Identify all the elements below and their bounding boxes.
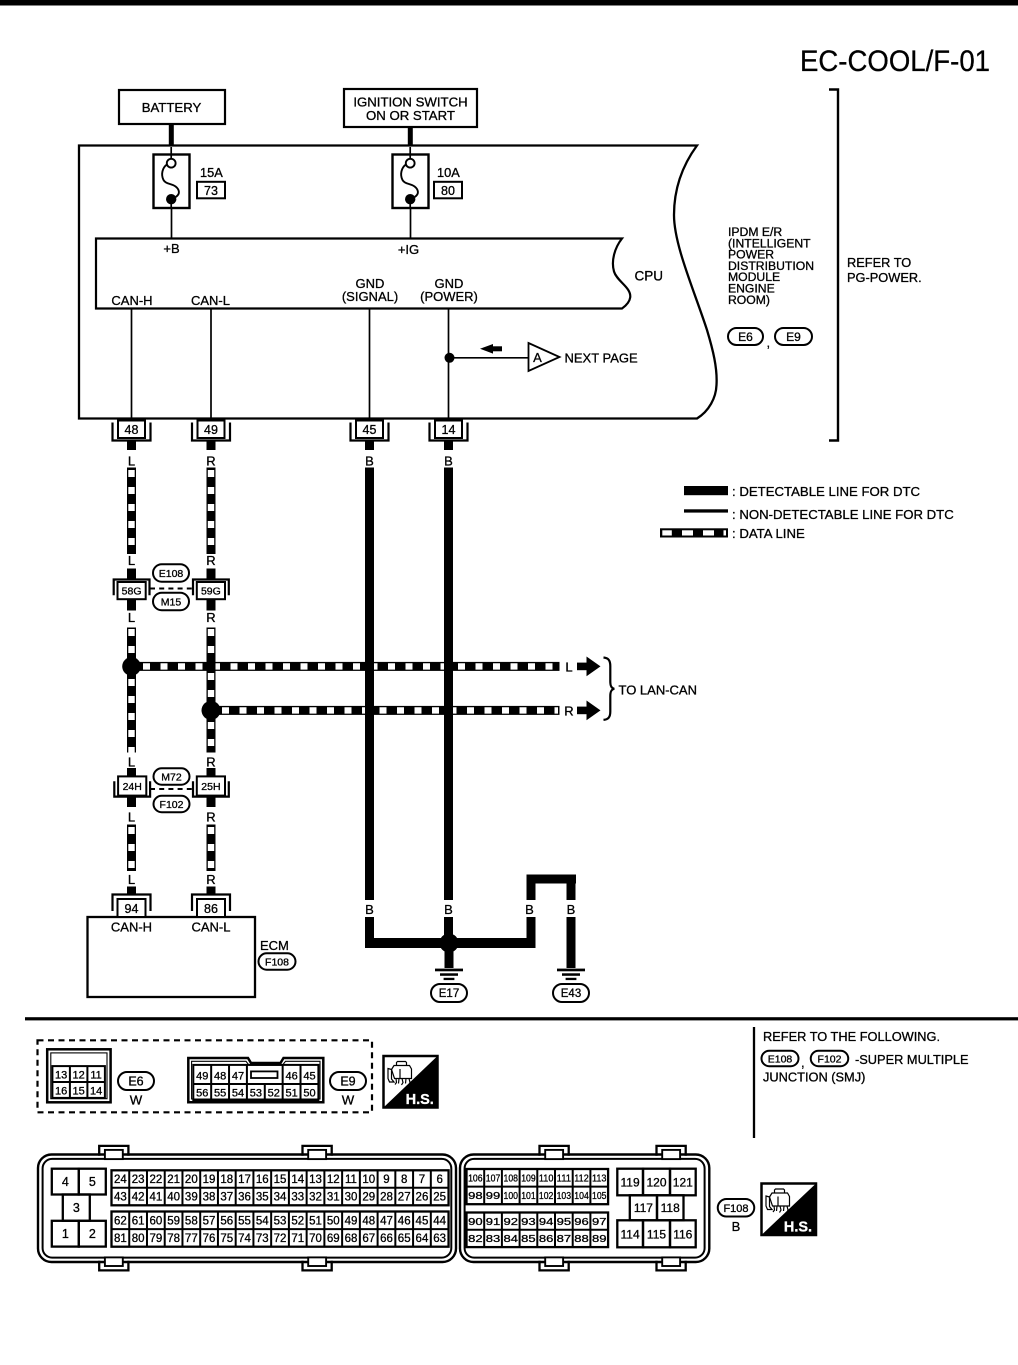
- stub below 59G: [207, 599, 216, 611]
- oval E108: [153, 564, 189, 582]
- svg-text:116: 116: [673, 1228, 692, 1242]
- svg-text:5: 5: [89, 1175, 96, 1189]
- svg-text:69: 69: [327, 1233, 340, 1245]
- svg-text:14: 14: [291, 1174, 304, 1186]
- SMJ terminal 58G: [114, 580, 150, 596]
- CAN-L data line to LAN-CAN: [211, 706, 560, 715]
- svg-text:56: 56: [220, 1215, 233, 1227]
- H.S. view symbol: [384, 1056, 438, 1108]
- svg-text:18: 18: [220, 1174, 233, 1186]
- svg-text:100: 100: [504, 1190, 519, 1202]
- svg-text:75: 75: [220, 1233, 233, 1245]
- svg-text:NEXT PAGE: NEXT PAGE: [565, 351, 639, 366]
- svg-text:79: 79: [149, 1233, 162, 1245]
- svg-text:22: 22: [149, 1174, 162, 1186]
- svg-text:31: 31: [327, 1192, 340, 1204]
- svg-text:JUNCTION (SMJ): JUNCTION (SMJ): [763, 1070, 865, 1085]
- svg-text:20: 20: [185, 1174, 198, 1186]
- svg-text:(SIGNAL): (SIGNAL): [342, 289, 398, 304]
- svg-text:3: 3: [73, 1201, 80, 1215]
- svg-text:121: 121: [673, 1175, 693, 1189]
- svg-text:17: 17: [238, 1174, 251, 1186]
- svg-text:53: 53: [250, 1087, 262, 1099]
- svg-text:+IG: +IG: [398, 242, 419, 257]
- svg-text:35: 35: [256, 1192, 269, 1204]
- wire GND POWER inside IPDM: [448, 309, 450, 422]
- svg-text:49: 49: [345, 1215, 358, 1227]
- svg-text:44: 44: [433, 1215, 446, 1227]
- svg-text:52: 52: [291, 1215, 304, 1227]
- oval F108: [259, 953, 296, 970]
- svg-text:15A: 15A: [200, 165, 223, 180]
- svg-text:16: 16: [256, 1174, 269, 1186]
- connector E6 face: [47, 1049, 110, 1102]
- CAN-H wire junction to 24H: [127, 671, 136, 753]
- SMJ dashed link 24H-25H: [150, 788, 193, 790]
- svg-text:15: 15: [274, 1174, 287, 1186]
- svg-text:TO LAN-CAN: TO LAN-CAN: [619, 683, 698, 698]
- pin grid 106-113 98-105: [467, 1169, 609, 1204]
- B wire from 45: [365, 468, 374, 901]
- dashed connector group box: [38, 1040, 373, 1112]
- svg-text:F108: F108: [265, 956, 289, 968]
- CAN-L data wire 25H to ECM: [207, 825, 216, 872]
- svg-text:CAN-L: CAN-L: [191, 920, 230, 935]
- large pins 119-121 117-118 114-116: [617, 1169, 643, 1196]
- svg-text:ON OR START: ON OR START: [366, 108, 455, 123]
- svg-text:10A: 10A: [437, 165, 460, 180]
- svg-text:47: 47: [380, 1215, 393, 1227]
- oval F102 ref: [811, 1051, 849, 1067]
- wire to next-page symbol: [450, 357, 529, 359]
- vertical divider: [753, 1027, 755, 1138]
- wire junction to E17 ground: [445, 950, 454, 968]
- svg-text:REFER TO THE FOLLOWING.: REFER TO THE FOLLOWING.: [763, 1029, 940, 1044]
- svg-text:96: 96: [574, 1216, 589, 1228]
- B riser left: [527, 882, 536, 900]
- svg-text:ECM: ECM: [260, 938, 289, 953]
- wire fuse1 to CPU: [171, 208, 173, 238]
- svg-text:14: 14: [90, 1085, 102, 1097]
- svg-text:16: 16: [55, 1085, 67, 1097]
- brace: [604, 658, 615, 720]
- oval E17: [431, 984, 467, 1002]
- terminal 45: [351, 423, 389, 441]
- svg-text:+B: +B: [163, 241, 179, 256]
- svg-text:55: 55: [238, 1215, 251, 1227]
- svg-text:53: 53: [274, 1215, 287, 1227]
- svg-text:B: B: [444, 902, 453, 917]
- wire GND SIGNAL inside IPDM: [369, 309, 371, 422]
- svg-text:B: B: [525, 902, 534, 917]
- svg-text:90: 90: [468, 1216, 483, 1228]
- svg-text:101: 101: [521, 1190, 536, 1202]
- svg-text:118: 118: [661, 1201, 680, 1215]
- svg-text:51: 51: [285, 1087, 297, 1099]
- svg-text:CAN-H: CAN-H: [111, 920, 152, 935]
- svg-text:104: 104: [574, 1190, 589, 1202]
- connector E9 face: [188, 1058, 323, 1102]
- oval E9: [330, 1072, 366, 1090]
- svg-text:59: 59: [167, 1215, 180, 1227]
- svg-text:89: 89: [592, 1233, 607, 1245]
- arrow R to LAN-CAN: [577, 707, 587, 715]
- svg-text:E6: E6: [738, 330, 753, 344]
- svg-text:8: 8: [401, 1174, 407, 1186]
- svg-text:4: 4: [62, 1175, 69, 1189]
- top black bar: [0, 0, 1018, 6]
- svg-text:108: 108: [504, 1173, 519, 1185]
- legend data line: [660, 528, 728, 537]
- svg-text:72: 72: [274, 1233, 287, 1245]
- svg-text:40: 40: [167, 1192, 180, 1204]
- svg-text:E6: E6: [128, 1075, 143, 1089]
- svg-text:112: 112: [574, 1173, 589, 1185]
- svg-text:12: 12: [327, 1174, 340, 1186]
- svg-text:111: 111: [557, 1173, 572, 1185]
- svg-text:24H: 24H: [123, 781, 142, 793]
- stub below 25H: [207, 797, 216, 808]
- svg-text:1: 1: [62, 1227, 69, 1241]
- junction dot B: [440, 934, 459, 953]
- svg-text:120: 120: [646, 1175, 666, 1189]
- svg-text:R: R: [564, 704, 573, 719]
- svg-text:66: 66: [380, 1233, 393, 1245]
- svg-text:E9: E9: [786, 330, 801, 344]
- oval F108 id: [718, 1199, 755, 1217]
- svg-text:113: 113: [592, 1173, 607, 1185]
- svg-text:CPU: CPU: [635, 269, 664, 284]
- svg-text:E9: E9: [340, 1075, 355, 1089]
- svg-text:BATTERY: BATTERY: [142, 100, 202, 115]
- svg-text:82: 82: [468, 1233, 483, 1245]
- svg-text:M15: M15: [161, 596, 182, 608]
- svg-text:58: 58: [185, 1215, 198, 1227]
- mounting tabs: [99, 1146, 128, 1156]
- svg-text:15: 15: [72, 1085, 84, 1097]
- svg-text:107: 107: [486, 1173, 501, 1185]
- svg-text:42: 42: [132, 1192, 145, 1204]
- svg-text:49: 49: [204, 423, 218, 437]
- svg-text:12: 12: [72, 1069, 84, 1081]
- svg-text:55: 55: [214, 1087, 226, 1099]
- B wire from 14: [444, 468, 453, 901]
- separator line: [25, 1017, 1018, 1020]
- svg-text:REFER TO: REFER TO: [847, 255, 911, 270]
- svg-text:B: B: [365, 454, 374, 469]
- svg-text:65: 65: [398, 1233, 411, 1245]
- svg-text:A: A: [533, 350, 542, 365]
- svg-text:74: 74: [238, 1233, 251, 1245]
- svg-text:49: 49: [196, 1070, 208, 1082]
- svg-text:11: 11: [90, 1069, 101, 1081]
- svg-text:56: 56: [196, 1087, 208, 1099]
- svg-text:10: 10: [362, 1174, 375, 1186]
- svg-text:47: 47: [232, 1070, 244, 1082]
- svg-text:80: 80: [441, 184, 455, 198]
- svg-text:84: 84: [504, 1233, 519, 1245]
- svg-text:37: 37: [220, 1192, 233, 1204]
- svg-text:51: 51: [309, 1215, 322, 1227]
- svg-text:92: 92: [504, 1216, 519, 1228]
- svg-text:13: 13: [309, 1174, 322, 1186]
- svg-text:R: R: [206, 553, 215, 568]
- svg-text:L: L: [565, 660, 572, 675]
- svg-text:: NON-DETECTABLE LINE FOR DTC: : NON-DETECTABLE LINE FOR DTC: [732, 507, 954, 522]
- stub below 24H: [127, 797, 136, 808]
- CAN-L wire junction to 25H: [207, 715, 216, 753]
- svg-text:77: 77: [185, 1233, 198, 1245]
- svg-text:W: W: [130, 1093, 143, 1108]
- svg-text:E108: E108: [159, 568, 184, 580]
- svg-text:85: 85: [521, 1233, 536, 1245]
- svg-text:F102: F102: [818, 1053, 842, 1065]
- svg-text:78: 78: [167, 1233, 180, 1245]
- junction dot on GND POWER wire: [445, 353, 455, 363]
- svg-text:23: 23: [132, 1174, 145, 1186]
- SMJ terminal 59G: [193, 580, 229, 596]
- next page triangle A: [529, 343, 560, 371]
- svg-text:105: 105: [592, 1190, 607, 1202]
- svg-text:26: 26: [416, 1192, 429, 1204]
- svg-text:B: B: [567, 902, 576, 917]
- svg-text:L: L: [128, 454, 135, 469]
- B bridge top: [527, 875, 577, 884]
- terminal 94: [113, 895, 151, 912]
- wire CAN-L inside IPDM: [210, 309, 212, 422]
- svg-text:E108: E108: [768, 1053, 793, 1065]
- svg-text:46: 46: [398, 1215, 411, 1227]
- svg-text:29: 29: [362, 1192, 375, 1204]
- wire ignition to IPDM: [408, 127, 413, 146]
- svg-text:83: 83: [486, 1233, 501, 1245]
- svg-text:E43: E43: [561, 988, 581, 1000]
- terminal 48: [113, 423, 151, 441]
- svg-text:80: 80: [132, 1233, 145, 1245]
- svg-text:41: 41: [149, 1192, 162, 1204]
- svg-text:L: L: [128, 553, 135, 568]
- svg-text:64: 64: [416, 1233, 429, 1245]
- connector oval E6: [728, 328, 763, 345]
- svg-text:98: 98: [468, 1190, 483, 1202]
- svg-text:32: 32: [309, 1192, 322, 1204]
- svg-text:14: 14: [442, 423, 456, 437]
- svg-text:,: ,: [767, 335, 771, 350]
- svg-text:60: 60: [149, 1215, 162, 1227]
- svg-text:86: 86: [539, 1233, 554, 1245]
- stub above 24H: [127, 768, 136, 779]
- svg-text:94: 94: [125, 902, 139, 916]
- svg-text:62: 62: [114, 1215, 127, 1227]
- B riser right to E43: [567, 882, 576, 900]
- ECM connector F108 left shell: [38, 1155, 456, 1263]
- svg-text:58G: 58G: [122, 586, 142, 598]
- svg-text:(POWER): (POWER): [420, 289, 478, 304]
- ECM connector F108 right shell: [460, 1155, 709, 1263]
- legend detectable line: [684, 486, 728, 495]
- svg-text:7: 7: [419, 1174, 425, 1186]
- ECM box: [88, 917, 256, 997]
- svg-text:28: 28: [380, 1192, 393, 1204]
- svg-text:34: 34: [274, 1192, 287, 1204]
- svg-text:73: 73: [204, 184, 218, 198]
- svg-text:97: 97: [592, 1216, 607, 1228]
- pin grid 62-44 81-63: [112, 1212, 449, 1247]
- svg-text:63: 63: [433, 1233, 446, 1245]
- svg-text:L: L: [128, 810, 135, 825]
- pin grid 24-6 43-25: [112, 1170, 449, 1205]
- pin grid 90-97 82-89: [467, 1213, 609, 1248]
- svg-text:68: 68: [345, 1233, 358, 1245]
- svg-text:76: 76: [203, 1233, 216, 1245]
- junction dot CAN-L: [202, 701, 221, 720]
- svg-text:25: 25: [433, 1192, 446, 1204]
- fuse 15A: [154, 155, 190, 209]
- svg-text:F108: F108: [723, 1203, 748, 1215]
- svg-text:73: 73: [256, 1233, 269, 1245]
- oval M72: [154, 768, 190, 785]
- CAN-H data line to LAN-CAN: [132, 662, 560, 671]
- connector oval E9: [775, 328, 812, 345]
- terminal 86: [192, 895, 230, 912]
- svg-text:25H: 25H: [201, 781, 220, 793]
- svg-text:39: 39: [185, 1192, 198, 1204]
- svg-text:45: 45: [363, 423, 377, 437]
- svg-text:102: 102: [539, 1190, 554, 1202]
- svg-text:87: 87: [557, 1233, 572, 1245]
- svg-text:50: 50: [327, 1215, 340, 1227]
- oval E108 ref: [762, 1051, 799, 1067]
- IPDM E/R box: [79, 146, 717, 419]
- stub below 58G: [127, 599, 136, 611]
- svg-text:103: 103: [557, 1190, 572, 1202]
- oval E43: [553, 984, 589, 1002]
- svg-text:R: R: [206, 872, 215, 887]
- svg-text:W: W: [342, 1093, 355, 1108]
- direction arrow: [480, 344, 493, 354]
- svg-text:21: 21: [167, 1174, 180, 1186]
- svg-text:54: 54: [232, 1087, 244, 1099]
- svg-text:: DATA LINE: : DATA LINE: [732, 526, 805, 541]
- svg-text:48: 48: [214, 1070, 226, 1082]
- E9 pin grid: [193, 1065, 318, 1100]
- svg-text:33: 33: [291, 1192, 304, 1204]
- svg-text:94: 94: [539, 1216, 554, 1228]
- svg-text:91: 91: [486, 1216, 501, 1228]
- fuse 10A: [393, 155, 429, 209]
- oval M15: [153, 593, 189, 611]
- CAN-H data wire 48 to 58G: [127, 468, 136, 555]
- svg-text:24: 24: [114, 1174, 127, 1186]
- svg-text:H.S.: H.S.: [784, 1219, 812, 1235]
- svg-text:9: 9: [383, 1174, 389, 1186]
- svg-text:93: 93: [521, 1216, 536, 1228]
- arrow L to LAN-CAN: [577, 663, 587, 671]
- legend non-detectable line: [684, 509, 728, 512]
- refer to PG-POWER bracket: [829, 90, 838, 441]
- svg-text:117: 117: [634, 1201, 653, 1215]
- large pins 4 5 3 1 2: [52, 1169, 79, 1195]
- svg-text:R: R: [206, 755, 215, 770]
- wire fuse2 to CPU: [410, 208, 412, 238]
- svg-text:57: 57: [203, 1215, 216, 1227]
- svg-text:19: 19: [203, 1174, 216, 1186]
- svg-text:30: 30: [345, 1192, 358, 1204]
- svg-text:6: 6: [436, 1174, 442, 1186]
- svg-text:43: 43: [114, 1192, 127, 1204]
- svg-text:38: 38: [203, 1192, 216, 1204]
- svg-text:54: 54: [256, 1215, 269, 1227]
- H.S. view symbol: [762, 1184, 817, 1236]
- bottom B bus wire: [365, 938, 536, 948]
- svg-text:13: 13: [55, 1069, 67, 1081]
- svg-text:CAN-L: CAN-L: [191, 293, 230, 308]
- svg-text:48: 48: [362, 1215, 375, 1227]
- battery box: [119, 90, 225, 124]
- svg-text:27: 27: [398, 1192, 411, 1204]
- svg-text:R: R: [206, 610, 215, 625]
- svg-text:M72: M72: [161, 771, 182, 783]
- svg-text:,: ,: [801, 1055, 805, 1070]
- stub above 25H: [207, 768, 216, 779]
- svg-text:115: 115: [647, 1228, 666, 1242]
- svg-text:11: 11: [345, 1174, 357, 1186]
- svg-text:L: L: [128, 755, 135, 770]
- CAN-H wire 58G to junction: [127, 628, 136, 662]
- CAN-H data wire 24H to ECM: [127, 825, 136, 872]
- svg-text:R: R: [206, 454, 215, 469]
- svg-text:86: 86: [204, 902, 218, 916]
- CPU box: [96, 239, 630, 309]
- svg-text:L: L: [128, 872, 135, 887]
- svg-text:61: 61: [132, 1215, 145, 1227]
- wire CAN-H inside IPDM: [131, 309, 133, 422]
- svg-text:71: 71: [291, 1233, 304, 1245]
- stub above 59G: [207, 569, 216, 581]
- svg-text:36: 36: [238, 1192, 251, 1204]
- ignition switch box: [344, 89, 477, 127]
- svg-text:-SUPER MULTIPLE: -SUPER MULTIPLE: [855, 1052, 969, 1067]
- svg-text:EC-COOL/F-01: EC-COOL/F-01: [800, 45, 990, 78]
- svg-text:CAN-H: CAN-H: [111, 293, 152, 308]
- svg-text:52: 52: [268, 1087, 280, 1099]
- svg-text:70: 70: [309, 1233, 322, 1245]
- CAN-L wire 59G to junction: [207, 628, 216, 706]
- svg-text:: DETECTABLE LINE FOR DTC: : DETECTABLE LINE FOR DTC: [732, 484, 921, 499]
- svg-text:B: B: [365, 902, 374, 917]
- svg-text:L: L: [128, 610, 135, 625]
- svg-text:PG-POWER.: PG-POWER.: [847, 270, 922, 285]
- svg-text:B: B: [444, 454, 453, 469]
- SMJ terminal 25H: [193, 781, 229, 796]
- svg-text:50: 50: [303, 1087, 315, 1099]
- svg-text:109: 109: [521, 1173, 536, 1185]
- svg-text:88: 88: [574, 1233, 589, 1245]
- ground: [435, 969, 463, 972]
- svg-text:45: 45: [416, 1215, 429, 1227]
- svg-text:E17: E17: [439, 988, 459, 1000]
- svg-text:48: 48: [125, 423, 139, 437]
- svg-text:2: 2: [89, 1227, 96, 1241]
- svg-text:95: 95: [557, 1216, 572, 1228]
- svg-text:ROOM): ROOM): [728, 293, 770, 307]
- svg-text:H.S.: H.S.: [406, 1092, 434, 1108]
- svg-text:67: 67: [362, 1233, 375, 1245]
- SMJ dashed link 58G-59G: [150, 588, 193, 590]
- terminal 49: [192, 423, 230, 441]
- svg-text:59G: 59G: [201, 586, 221, 598]
- oval E6: [118, 1072, 154, 1090]
